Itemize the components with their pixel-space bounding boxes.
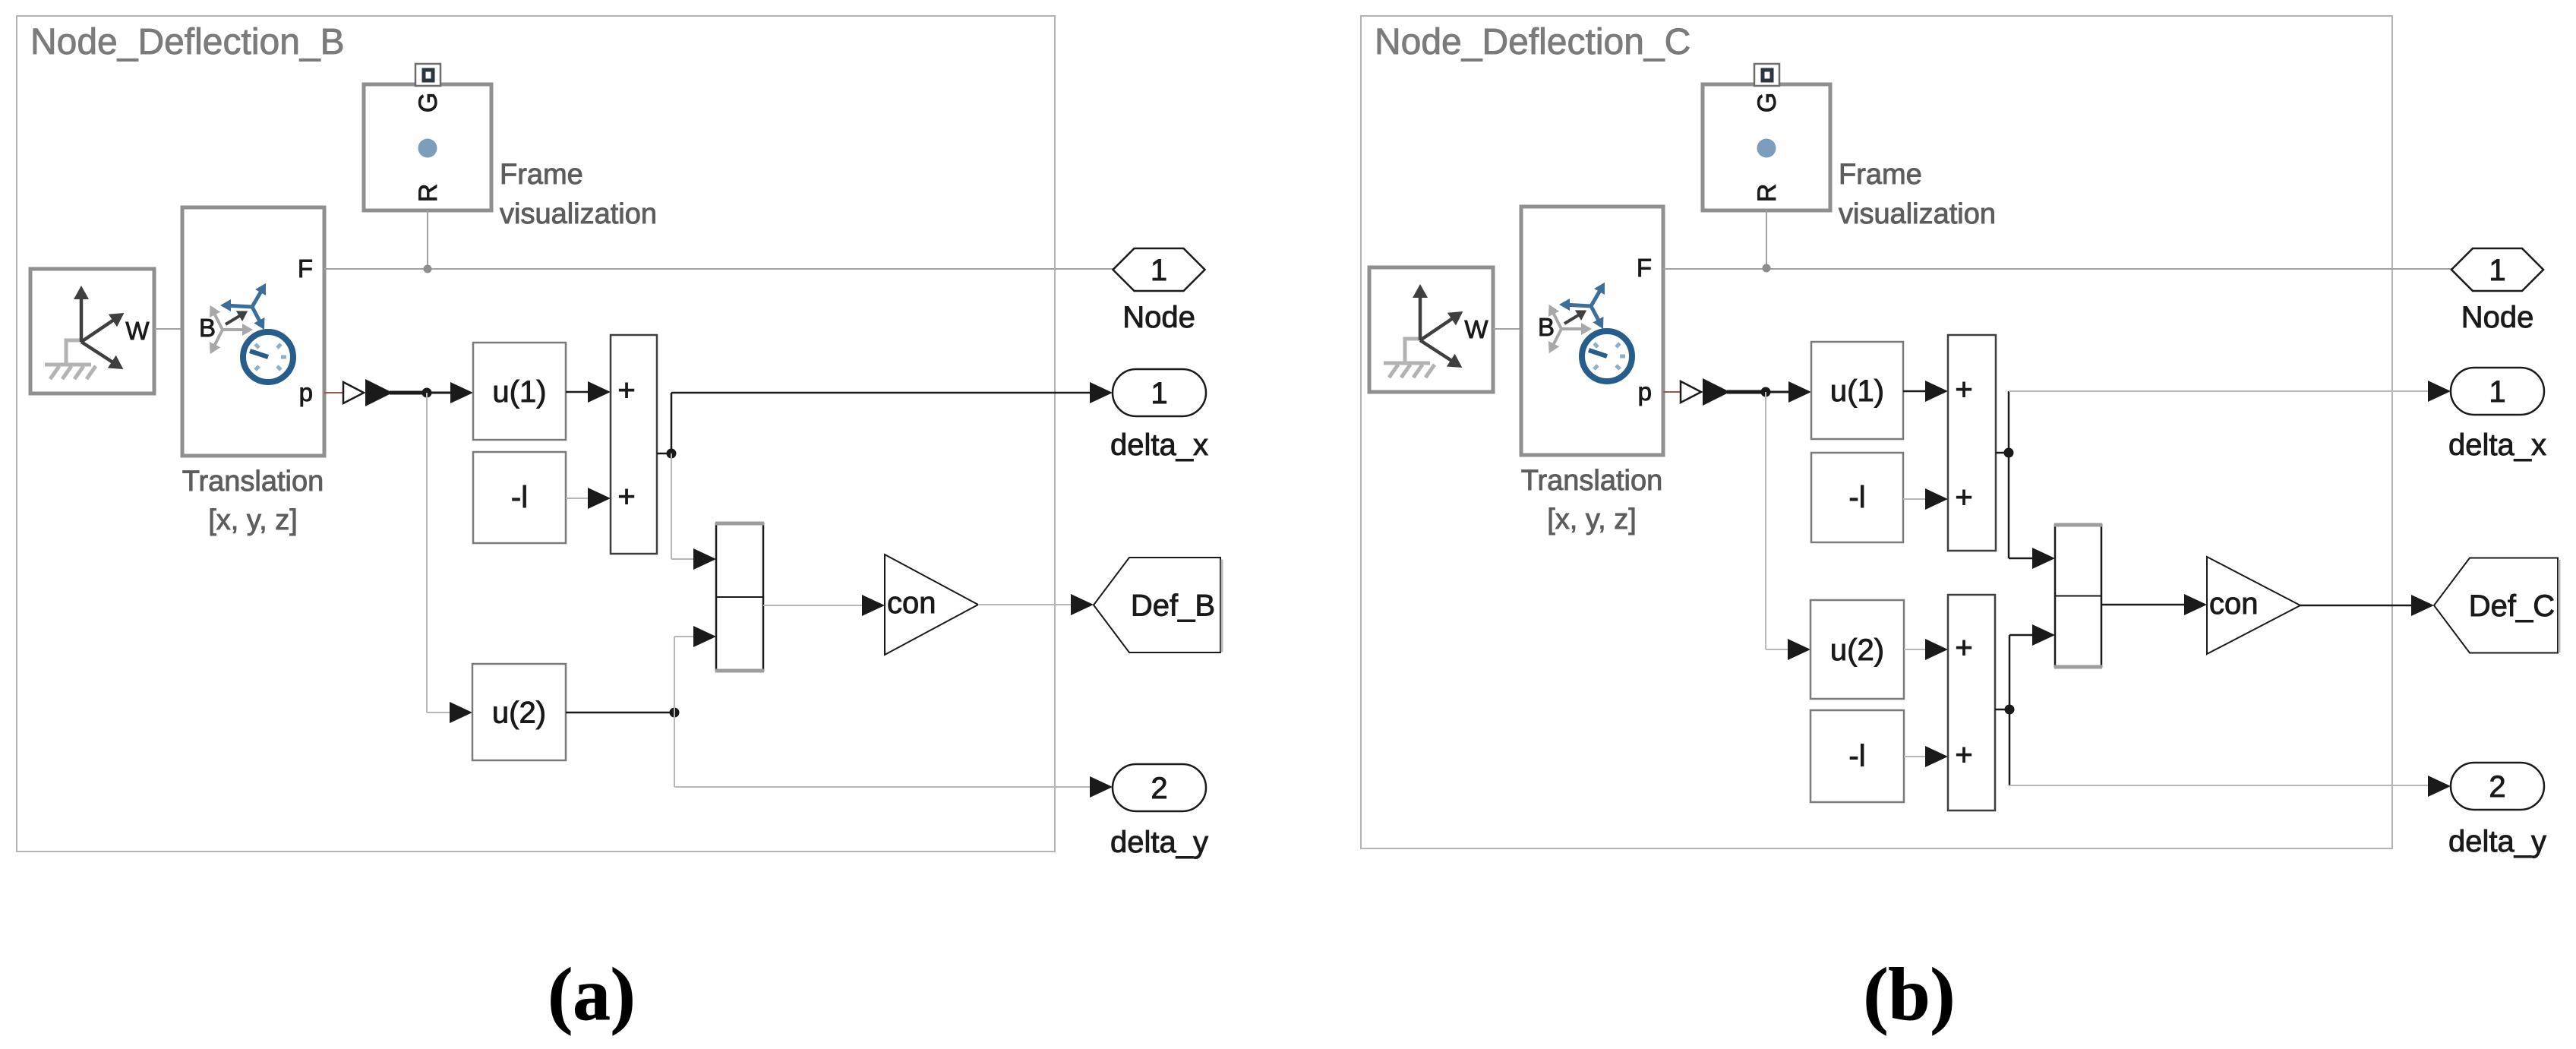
- gain block con (a): [885, 555, 978, 655]
- svg-text:W: W: [125, 317, 150, 345]
- signal conversion triangle (b): [1681, 381, 1701, 403]
- label delta_x (b): [2448, 428, 2546, 462]
- label Frame visualization (b): [1839, 159, 1996, 230]
- outport 1 delta_x (b): [2451, 368, 2544, 415]
- svg-text:Frame: Frame: [500, 159, 583, 191]
- frame visualization toggle icon (b): [1754, 64, 1779, 86]
- wire u(2) to delta_y (a): [674, 712, 1113, 798]
- svg-text:con: con: [887, 586, 936, 620]
- svg-text:+: +: [1955, 373, 1972, 406]
- svg-text:+: +: [1955, 481, 1972, 514]
- bus arrow and thick wire p (a): [365, 379, 427, 406]
- svg-text:Node: Node: [2461, 301, 2534, 334]
- title Node_Deflection_B: [30, 22, 345, 62]
- svg-text:Node: Node: [1122, 301, 1195, 334]
- svg-text:[x, y, z]: [x, y, z]: [208, 504, 298, 536]
- junction dot p (a): [422, 388, 432, 398]
- frame visualization block (a): [364, 84, 491, 210]
- gain block -I 1 (b): [1811, 453, 1903, 542]
- world frame block W (a): [30, 269, 154, 393]
- port Node hexagon 1 (b): [2451, 248, 2543, 291]
- selector block u(2) (a): [472, 664, 566, 760]
- label delta_x (a): [1110, 428, 1208, 462]
- frame visualization block (b): [1703, 84, 1830, 210]
- label delta_y (a): [1110, 826, 1208, 859]
- svg-text:B: B: [1538, 313, 1555, 341]
- svg-text:visualization: visualization: [1839, 198, 1996, 230]
- frame visualization toggle icon (a): [415, 64, 440, 86]
- wire p junction to u(2) (b): [1766, 392, 1810, 660]
- wire sum1 to delta_x (b): [2009, 381, 2451, 453]
- svg-text:delta_y: delta_y: [2448, 825, 2546, 858]
- label Frame visualization (a): [500, 159, 657, 230]
- svg-text:u(1): u(1): [492, 375, 546, 409]
- wire W to B (b): [1493, 328, 1521, 330]
- outport 2 delta_y (a): [1113, 764, 1206, 811]
- mux block (a): [715, 523, 764, 671]
- svg-text:u(2): u(2): [1830, 634, 1884, 667]
- svg-text:delta_x: delta_x: [1110, 428, 1208, 462]
- wire sum output stub (a): [657, 453, 671, 455]
- svg-text:delta_y: delta_y: [1110, 826, 1208, 859]
- svg-text:Frame: Frame: [1839, 159, 1922, 191]
- wire -I 2 to sum2 (b): [1904, 746, 1948, 767]
- wire sum junction to mux input 1 (a): [671, 453, 716, 570]
- svg-text:G: G: [1753, 93, 1782, 112]
- wire p to u(1) (a): [427, 382, 473, 403]
- wire p to u(1) (b): [1766, 381, 1811, 403]
- wire sum1 output stub (b): [1996, 452, 2009, 454]
- svg-text:delta_x: delta_x: [2448, 428, 2546, 462]
- label Node (a): [1122, 301, 1195, 334]
- transform block Translation (a): [182, 207, 324, 456]
- svg-text:1: 1: [2489, 254, 2505, 287]
- label Node (b): [2461, 301, 2534, 334]
- gain block -I 2 (b): [1810, 710, 1904, 802]
- wire mux to con (b): [2101, 594, 2207, 615]
- svg-text:Translation: Translation: [1521, 465, 1663, 497]
- blue dot (a): [418, 139, 437, 158]
- wire sum2 output stub (b): [1995, 709, 2009, 711]
- svg-text:+: +: [617, 374, 635, 407]
- junction dot sum1 (b): [2004, 448, 2014, 458]
- sum block (a): [611, 335, 657, 554]
- port label p (a): [299, 378, 313, 406]
- svg-text:(a): (a): [548, 953, 635, 1036]
- signal conversion triangle (a): [343, 382, 364, 403]
- svg-text:Node_Deflection_B: Node_Deflection_B: [30, 22, 345, 62]
- port Node hexagon 1 (a): [1113, 248, 1205, 291]
- svg-text:Translation: Translation: [182, 466, 324, 498]
- caption (b): [1864, 953, 1956, 1036]
- goto tag Def_C (b): [2434, 558, 2559, 653]
- svg-text:Def_C: Def_C: [2469, 589, 2555, 623]
- svg-text:con: con: [2209, 587, 2259, 621]
- mux block (b): [2054, 525, 2102, 667]
- svg-text:-l: -l: [1848, 481, 1865, 514]
- wire con to Def_C (b): [2300, 595, 2434, 616]
- port label R (b): [1753, 184, 1782, 203]
- svg-text:R: R: [414, 184, 443, 203]
- wire u(1) to sum (a): [566, 381, 611, 403]
- gain block -I (a): [473, 452, 566, 543]
- svg-text:[x, y, z]: [x, y, z]: [1547, 504, 1637, 536]
- svg-text:Def_B: Def_B: [1131, 589, 1215, 623]
- svg-text:1: 1: [1151, 254, 1167, 287]
- svg-text:1: 1: [1151, 377, 1167, 410]
- port label p (b): [1638, 378, 1652, 406]
- junction dot sum (a): [667, 449, 677, 459]
- label delta_y (b): [2448, 825, 2546, 858]
- wire -I to sum (a): [566, 488, 611, 509]
- port label R (a): [414, 184, 443, 203]
- svg-text:F: F: [298, 254, 313, 283]
- port label W (b): [1464, 315, 1488, 343]
- selector block u(2) (b): [1810, 600, 1904, 699]
- blue dot (b): [1757, 139, 1776, 158]
- selector block u(1) (b): [1811, 342, 1903, 439]
- wire p junction to u(2) (a): [427, 393, 472, 723]
- wire frame visualization drop (a): [427, 210, 428, 269]
- svg-text:-l: -l: [511, 481, 528, 514]
- junction dot p (b): [1761, 387, 1771, 397]
- wire p stub (a): [324, 392, 343, 393]
- transform block Translation (b): [1521, 207, 1663, 455]
- svg-text:2: 2: [1151, 772, 1167, 805]
- subsystem frame Node_Deflection_C: [1361, 16, 2392, 848]
- junction dot sum2 (b): [2005, 705, 2015, 715]
- port label F (b): [1637, 254, 1652, 282]
- bus arrow and thick wire p (b): [1703, 378, 1766, 406]
- wire -I to sum1 (b): [1903, 488, 1948, 510]
- wire F to Node (b): [1663, 268, 2451, 270]
- port label G (b): [1753, 93, 1782, 112]
- svg-text:1: 1: [2489, 375, 2505, 409]
- svg-text:p: p: [1638, 378, 1652, 406]
- junction dot u(2) (a): [670, 708, 680, 718]
- wire mux to con (a): [763, 595, 885, 616]
- port label B (a): [199, 314, 216, 342]
- wire sum1 junction to mux input 1 (b): [2009, 453, 2055, 569]
- port label G (a): [414, 93, 443, 112]
- svg-text:B: B: [199, 314, 216, 342]
- wire sum2 to delta_y (b): [2009, 709, 2451, 797]
- svg-text:u(2): u(2): [492, 697, 546, 730]
- wire sum to delta_x (a): [671, 382, 1113, 453]
- svg-text:R: R: [1753, 184, 1782, 203]
- wire u(2) output (a): [566, 712, 674, 714]
- wire u(2) to sum2 (b): [1904, 639, 1948, 660]
- wire con to Def_B (a): [978, 594, 1094, 615]
- svg-text:G: G: [414, 93, 443, 112]
- wire u(1) to sum1 (b): [1903, 381, 1948, 402]
- svg-text:Node_Deflection_C: Node_Deflection_C: [1375, 22, 1690, 62]
- subsystem frame Node_Deflection_B: [17, 16, 1055, 852]
- sum block 1 (b): [1948, 335, 1996, 551]
- svg-text:+: +: [617, 480, 635, 513]
- wire p stub (b): [1663, 391, 1681, 393]
- svg-text:2: 2: [2489, 770, 2505, 804]
- world frame block W (b): [1369, 267, 1493, 392]
- caption (a): [548, 953, 635, 1036]
- gain block con (b): [2207, 557, 2300, 654]
- svg-text:F: F: [1637, 254, 1652, 282]
- outport 2 delta_y (b): [2451, 763, 2544, 810]
- svg-text:u(1): u(1): [1830, 374, 1884, 408]
- title Node_Deflection_C: [1375, 22, 1690, 62]
- wire frame visualization drop (b): [1766, 210, 1767, 268]
- svg-text:W: W: [1464, 315, 1488, 343]
- label Translation [x, y, z] (b): [1521, 465, 1663, 536]
- wire W to B (a): [154, 328, 182, 330]
- svg-text:+: +: [1955, 631, 1972, 665]
- svg-text:-l: -l: [1848, 740, 1865, 773]
- svg-text:+: +: [1955, 738, 1972, 772]
- port label F (a): [298, 254, 313, 283]
- outport 1 delta_x (a): [1113, 369, 1206, 416]
- port label B (b): [1538, 313, 1555, 341]
- port label W (a): [125, 317, 150, 345]
- goto tag Def_B (a): [1094, 558, 1222, 652]
- svg-text:(b): (b): [1864, 953, 1956, 1036]
- junction dot F (b): [1763, 264, 1771, 273]
- label Translation [x, y, z] (a): [182, 466, 324, 536]
- svg-text:p: p: [299, 378, 313, 406]
- wire sum2 to mux input 2 (b): [2009, 624, 2055, 709]
- svg-text:visualization: visualization: [500, 198, 657, 230]
- wire u(2) to mux input 2 (a): [674, 626, 716, 712]
- selector block u(1) (a): [473, 343, 566, 440]
- sum block 2 (b): [1948, 595, 1995, 810]
- wire F to Node (a): [324, 268, 1113, 270]
- junction dot F (a): [424, 265, 432, 273]
